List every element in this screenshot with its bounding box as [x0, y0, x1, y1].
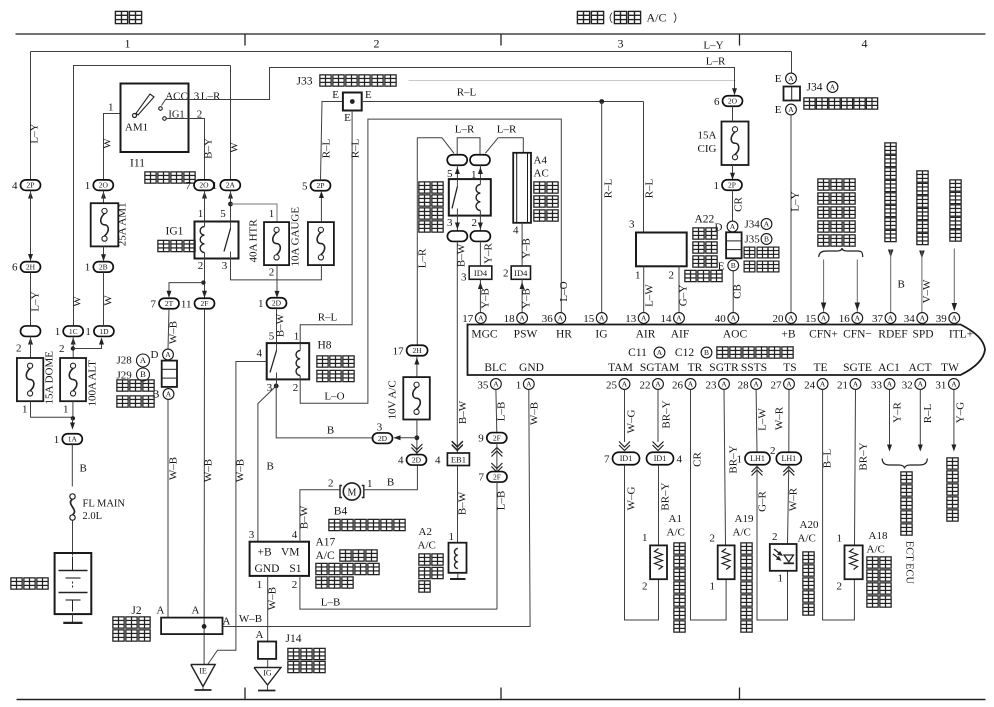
svg-text:28: 28	[738, 380, 750, 392]
svg-text:BLC: BLC	[484, 362, 507, 374]
junction connector J2	[161, 618, 222, 635]
label ignition switch	[145, 172, 156, 183]
relay IG1 switch	[230, 222, 232, 229]
svg-text:B: B	[704, 348, 709, 357]
svg-text:1: 1	[837, 533, 843, 545]
svg-text:W–B: W–B	[203, 459, 215, 482]
wire W-G to A1 loop	[625, 465, 659, 620]
svg-text:6: 6	[714, 96, 720, 108]
junction oval	[21, 326, 41, 337]
svg-text:A: A	[788, 105, 794, 114]
svg-text:1: 1	[737, 453, 743, 465]
junction block J34/J35	[726, 232, 742, 258]
svg-text:RDEF: RDEF	[878, 329, 907, 341]
wire R-L J33 bottom to H8 pin1	[300, 111, 352, 344]
wire W-R from TS	[788, 390, 790, 453]
wire W-B GND to J14	[267, 576, 269, 642]
svg-text:B–W: B–W	[457, 491, 469, 515]
svg-text:A/C: A/C	[646, 11, 666, 25]
svg-text:33: 33	[871, 380, 883, 392]
svg-text:W–B: W–B	[529, 402, 541, 425]
svg-text:CFN+: CFN+	[809, 329, 838, 341]
wire L-O from H8 pin2 to HR	[300, 119, 561, 403]
wire L-Y left vertical	[30, 52, 32, 181]
svg-text:V–W: V–W	[921, 279, 933, 303]
svg-text:AIF: AIF	[671, 329, 690, 341]
wire CFN+ arrow	[823, 260, 825, 313]
svg-text:31: 31	[935, 380, 946, 392]
svg-text:4: 4	[862, 37, 868, 51]
svg-text:10A GAUGE: 10A GAUGE	[290, 207, 302, 267]
connector 2(LH1)	[776, 452, 801, 465]
svg-text:1: 1	[642, 532, 648, 544]
clutch A2 box	[449, 543, 467, 573]
svg-text:1: 1	[108, 102, 114, 114]
label see lighting system	[950, 180, 961, 191]
svg-text:B: B	[152, 389, 159, 401]
svg-text:A: A	[688, 380, 694, 389]
svg-text:27: 27	[771, 380, 783, 392]
wire BR-Y to A1 pin1	[658, 465, 660, 546]
header label: A/C auto	[577, 11, 589, 23]
svg-text:A: A	[721, 380, 727, 389]
svg-text:1: 1	[125, 37, 131, 51]
svg-text:W–B: W–B	[239, 613, 262, 625]
wire B to FL MAIN	[71, 444, 73, 486]
wire L-Y corner to J34	[791, 52, 793, 74]
chevron into 4(2D)	[411, 448, 422, 454]
svg-text:A: A	[526, 380, 532, 389]
svg-text:40A HTR: 40A HTR	[248, 219, 260, 263]
svg-text:W–B: W–B	[168, 457, 180, 480]
svg-text:C12: C12	[675, 347, 694, 359]
svg-text:A: A	[519, 314, 525, 323]
svg-text:J33: J33	[297, 76, 313, 88]
svg-text:C11: C11	[628, 347, 647, 359]
svg-text:4: 4	[257, 348, 263, 360]
svg-text:IG: IG	[263, 669, 272, 678]
svg-text:A18: A18	[869, 530, 888, 542]
svg-text:2A: 2A	[226, 181, 236, 190]
battery	[55, 553, 92, 614]
connector 1(2P)	[722, 180, 742, 191]
svg-text:TW: TW	[941, 362, 959, 374]
svg-text:J35: J35	[745, 234, 761, 246]
svg-text:2O: 2O	[199, 181, 209, 190]
svg-text:SGTR: SGTR	[709, 362, 739, 374]
svg-text:16: 16	[839, 313, 851, 325]
svg-text:A4: A4	[534, 155, 548, 167]
svg-text:A/C: A/C	[867, 544, 885, 556]
label from radiator and condenser fan system	[818, 179, 829, 190]
svg-text:A19: A19	[735, 513, 754, 525]
wire HTR bottom rail to 1(2D)	[277, 265, 321, 280]
svg-text:A: A	[855, 314, 861, 323]
mating chevrons 2F	[491, 448, 502, 454]
H8 pin3 junction dot	[274, 384, 279, 389]
connector 17(2H)	[407, 345, 428, 356]
svg-text:LH1: LH1	[750, 454, 765, 463]
svg-text:CR: CR	[692, 452, 704, 467]
junction connector J34	[784, 87, 801, 101]
svg-text:2: 2	[503, 268, 509, 280]
svg-text:1: 1	[54, 434, 60, 446]
svg-text:J28: J28	[117, 355, 133, 367]
svg-text:2P: 2P	[317, 181, 325, 190]
svg-text:CB: CB	[732, 284, 744, 299]
svg-text:B: B	[898, 279, 905, 291]
wire L-B from BLC	[495, 390, 498, 433]
svg-text:VM: VM	[281, 547, 300, 559]
svg-text:7: 7	[479, 472, 485, 484]
label resistor clutch relay	[419, 182, 430, 193]
junction connector 4 EB1	[452, 445, 463, 451]
svg-text:A: A	[764, 220, 770, 229]
wire B-W 2D to H8	[276, 308, 278, 343]
svg-text:FL MAIN: FL MAIN	[83, 499, 126, 510]
svg-text:CR: CR	[733, 197, 745, 212]
svg-text:1A: 1A	[68, 435, 78, 444]
connector 7(2O)	[194, 180, 214, 191]
ground IG	[267, 659, 269, 668]
label from combination meter	[917, 171, 928, 182]
svg-text:B: B	[387, 477, 394, 489]
svg-text:1: 1	[714, 180, 720, 192]
svg-text:IG: IG	[595, 329, 607, 341]
svg-text:15: 15	[583, 313, 595, 325]
svg-text:1: 1	[367, 478, 373, 490]
header label: power source	[115, 11, 127, 23]
bottom boundary ruler	[17, 699, 986, 701]
svg-text:ITL+: ITL+	[949, 329, 973, 341]
svg-text:15A DOME: 15A DOME	[44, 351, 56, 405]
wire 1C to ALT junction	[71, 338, 76, 345]
svg-text:23: 23	[706, 380, 718, 392]
wire L-B down to S1	[496, 482, 498, 609]
svg-text:A: A	[223, 616, 231, 628]
svg-text:B–L: B–L	[822, 448, 834, 468]
svg-text:2: 2	[328, 478, 334, 490]
wire BR-Y from SGTAM	[657, 390, 659, 443]
svg-text:2H: 2H	[413, 346, 423, 355]
svg-text:2D: 2D	[272, 299, 282, 308]
blower motor B4	[343, 483, 360, 500]
svg-text:ECT ECU: ECT ECU	[904, 541, 915, 585]
svg-text:L–R: L–R	[417, 248, 429, 268]
svg-text:GND: GND	[519, 362, 544, 374]
svg-text:22: 22	[640, 380, 651, 392]
svg-text:6: 6	[12, 262, 18, 274]
svg-text:G–Y: G–Y	[678, 285, 690, 306]
svg-text:S1: S1	[289, 563, 301, 575]
connector ovals below clutch relay	[447, 231, 467, 242]
svg-text:SPD: SPD	[912, 329, 933, 341]
svg-text:A: A	[192, 605, 200, 617]
wire Y-R to ID4	[479, 242, 481, 267]
wire W-B from GND to J2	[223, 390, 531, 627]
wire R-L from ACT	[919, 390, 921, 450]
svg-text:W–B: W–B	[235, 459, 247, 482]
wire B to 3(2D)	[276, 386, 372, 438]
wire B-W long vertical	[456, 242, 458, 454]
svg-text:TAM: TAM	[608, 362, 633, 374]
svg-text:W–G: W–G	[626, 410, 638, 434]
wire DOME to 1A junction	[31, 401, 73, 417]
svg-text:SGTAM: SGTAM	[640, 362, 679, 374]
sensor A20 solar	[770, 544, 797, 571]
svg-text:E: E	[344, 112, 351, 124]
junction dot to HTR	[228, 202, 233, 207]
top boundary ruler	[16, 33, 986, 35]
connector 1(2D)	[267, 298, 287, 309]
svg-text:D: D	[715, 222, 723, 234]
wire R-L from J33 right	[362, 101, 644, 103]
connector 1(2O) left	[93, 180, 113, 191]
svg-text:37: 37	[872, 313, 884, 325]
wire CFN- arrow	[856, 260, 858, 313]
wire A4 pin4 to ID4	[521, 223, 523, 266]
sensor A1 ambient temp	[650, 545, 667, 579]
wire 2O to relay pin 1	[204, 190, 206, 221]
svg-text:A: A	[887, 380, 893, 389]
wire W from AM1 pin 1	[104, 114, 121, 181]
svg-text:I11: I11	[130, 158, 145, 170]
svg-text:1: 1	[85, 326, 91, 338]
svg-text:B–W: B–W	[275, 313, 287, 337]
IG1 contact	[163, 117, 167, 121]
svg-text:E: E	[365, 89, 372, 101]
svg-text:Y–G: Y–G	[955, 402, 967, 423]
svg-text:J34: J34	[745, 219, 761, 231]
svg-text:R–L: R–L	[603, 178, 615, 198]
svg-text:4: 4	[292, 529, 298, 541]
svg-text:B: B	[267, 461, 274, 473]
AM1 contact and lever	[133, 114, 137, 118]
svg-text:A: A	[786, 380, 792, 389]
fusible link FL MAIN 2.0L	[70, 494, 75, 499]
svg-text:CIG: CIG	[698, 143, 717, 155]
svg-text:R–L: R–L	[457, 87, 477, 99]
battery ground	[72, 614, 74, 623]
servo motor A22 box	[636, 233, 687, 267]
svg-text:W–B: W–B	[168, 321, 180, 344]
svg-text:2: 2	[710, 533, 716, 545]
svg-text:2P: 2P	[728, 181, 736, 190]
svg-text:26: 26	[672, 380, 684, 392]
svg-text:）: ）	[673, 12, 684, 25]
svg-text:Y–B: Y–B	[480, 288, 492, 309]
svg-text:B–W: B–W	[457, 400, 469, 424]
svg-text:A: A	[920, 314, 926, 323]
connector 1(1C)	[63, 326, 83, 337]
svg-text:A17: A17	[316, 537, 336, 549]
relay IG1 coil	[200, 227, 204, 253]
controller A17 box	[250, 542, 309, 576]
svg-text:B: B	[140, 369, 146, 379]
svg-text:3: 3	[629, 219, 635, 231]
wire R-L down to A22	[643, 102, 645, 233]
svg-text:A: A	[788, 74, 794, 83]
svg-text:L–B: L–B	[496, 491, 508, 511]
sensor A19 in-car temp	[718, 545, 735, 579]
connector 3(2D)	[373, 433, 393, 444]
svg-text:A: A	[821, 314, 827, 323]
wire 2A to relay pin 5	[230, 190, 232, 221]
svg-text:ACT: ACT	[909, 362, 932, 374]
wire Y-G from TW	[953, 390, 955, 450]
connector 9(2F)	[487, 433, 507, 444]
svg-text:3: 3	[377, 422, 383, 434]
wire A22 pin2 to AIF	[678, 266, 680, 312]
svg-text:A: A	[256, 629, 264, 641]
wire R-L down to pin IG	[601, 102, 603, 313]
svg-text:ID4: ID4	[474, 268, 488, 278]
fuse 40A HTR	[264, 222, 289, 265]
svg-text:R–L: R–L	[321, 138, 333, 158]
svg-text:11: 11	[181, 298, 192, 310]
wire W-R to A20 pin2	[788, 465, 789, 544]
svg-text:W–R: W–R	[774, 406, 786, 430]
wire B motor to 4(2D)	[364, 466, 418, 490]
fuse 25A AM1	[91, 203, 119, 246]
svg-text:A: A	[753, 380, 759, 389]
wire W-B 2F to J2/IE	[203, 309, 205, 664]
svg-text:2: 2	[198, 260, 204, 272]
svg-text:D: D	[151, 349, 159, 361]
svg-text:5: 5	[220, 208, 226, 220]
svg-text:IE: IE	[199, 667, 207, 676]
svg-text:A: A	[478, 314, 484, 323]
ignition switch I11 box	[121, 84, 189, 153]
wire into DOME fuse	[28, 338, 33, 345]
svg-text:J34: J34	[807, 82, 823, 94]
svg-text:R–L: R–L	[922, 403, 934, 423]
svg-text:E: E	[718, 261, 725, 273]
svg-text:A: A	[788, 314, 794, 323]
junction connector ID4 no.2	[511, 266, 530, 279]
svg-text:SGTE: SGTE	[843, 362, 872, 374]
svg-text:17: 17	[393, 345, 405, 357]
svg-text:17: 17	[462, 313, 474, 325]
svg-text:BR–Y: BR–Y	[858, 442, 870, 470]
H8 coil	[296, 351, 300, 376]
label to combination meter	[947, 458, 958, 469]
svg-text:2: 2	[772, 531, 778, 543]
svg-text:5: 5	[302, 180, 308, 192]
relay IG1 box	[195, 222, 239, 259]
svg-text:2F: 2F	[493, 472, 501, 481]
junction block J28/J29	[162, 361, 177, 387]
svg-text:40: 40	[715, 313, 727, 325]
svg-text:A/C: A/C	[418, 540, 436, 552]
svg-text:2: 2	[293, 382, 299, 394]
svg-text:B: B	[80, 463, 87, 475]
wire to battery	[72, 521, 74, 556]
svg-text:2: 2	[59, 343, 65, 355]
svg-text:W: W	[103, 295, 115, 306]
wire B-L from TE	[823, 390, 855, 621]
svg-text:A: A	[951, 380, 957, 389]
svg-text:TE: TE	[813, 362, 827, 374]
svg-text:MGC: MGC	[471, 329, 498, 341]
svg-text:A: A	[657, 348, 663, 357]
svg-text:A: A	[622, 380, 628, 389]
svg-text:4: 4	[398, 455, 404, 467]
wire W-B from 2T	[168, 309, 169, 349]
svg-text:4: 4	[12, 180, 18, 192]
svg-text:W: W	[72, 296, 84, 307]
svg-text:1: 1	[710, 581, 716, 593]
svg-text:W–G: W–G	[626, 487, 638, 511]
svg-text:24: 24	[804, 380, 816, 392]
svg-text:L–B: L–B	[321, 597, 341, 609]
svg-text:1: 1	[269, 208, 275, 220]
wire W from ignition to 1C	[74, 66, 231, 327]
svg-text:A: A	[853, 380, 859, 389]
svg-text:2O: 2O	[728, 97, 738, 106]
svg-text:2H: 2H	[26, 263, 36, 272]
svg-text:R–L: R–L	[644, 178, 656, 198]
svg-text:B–W: B–W	[299, 505, 311, 529]
svg-text:W–B: W–B	[267, 587, 279, 610]
chevron below LH1-1	[752, 467, 763, 473]
pressure switch A4	[513, 153, 531, 223]
svg-text:15A: 15A	[698, 130, 717, 142]
label from defogger relay	[885, 143, 896, 154]
svg-text:ID4: ID4	[514, 268, 528, 278]
svg-text:1: 1	[85, 262, 91, 274]
svg-text:L–Y: L–Y	[790, 191, 802, 211]
fuse 10A GAUGE	[308, 222, 334, 265]
resistor clutch relay box	[449, 179, 491, 216]
svg-text:AOC: AOC	[723, 329, 748, 341]
svg-text:25A AM1: 25A AM1	[117, 203, 129, 247]
svg-text:TR: TR	[688, 362, 703, 374]
svg-text:W–R: W–R	[788, 487, 800, 511]
connector ovals above clutch relay	[447, 155, 467, 166]
svg-text:BR–Y: BR–Y	[661, 400, 673, 428]
svg-text:4: 4	[677, 453, 683, 465]
clutch relay coil	[476, 185, 480, 211]
ground IE	[191, 665, 215, 687]
connector 6(2H)	[21, 262, 41, 273]
svg-text:2: 2	[16, 343, 22, 355]
svg-text:SSTS: SSTS	[741, 362, 767, 374]
fuse 100A ALT	[60, 358, 86, 401]
connector 1(2A)	[220, 180, 240, 191]
svg-text:2: 2	[374, 37, 380, 51]
svg-text:A: A	[918, 380, 924, 389]
svg-text:2: 2	[770, 445, 776, 457]
svg-text:CFN−: CFN−	[843, 329, 872, 341]
svg-text:L–B: L–B	[496, 402, 508, 422]
svg-text:J14: J14	[286, 633, 302, 645]
svg-text:AIR: AIR	[636, 329, 656, 341]
svg-text:39: 39	[936, 313, 948, 325]
svg-text:PSW: PSW	[514, 329, 538, 341]
svg-text:A: A	[655, 380, 661, 389]
svg-text:2D: 2D	[412, 455, 422, 464]
svg-text:9: 9	[478, 433, 484, 445]
svg-text:1: 1	[198, 208, 204, 220]
ACC contact	[159, 107, 163, 111]
wire Y-B to MGC	[479, 279, 481, 312]
wire L-B S1 loop	[300, 576, 497, 609]
svg-text:L–W: L–W	[757, 408, 769, 431]
connector 7(2T)	[159, 298, 179, 309]
svg-text:A: A	[166, 390, 172, 399]
wire into AM1 fuse	[101, 192, 106, 199]
